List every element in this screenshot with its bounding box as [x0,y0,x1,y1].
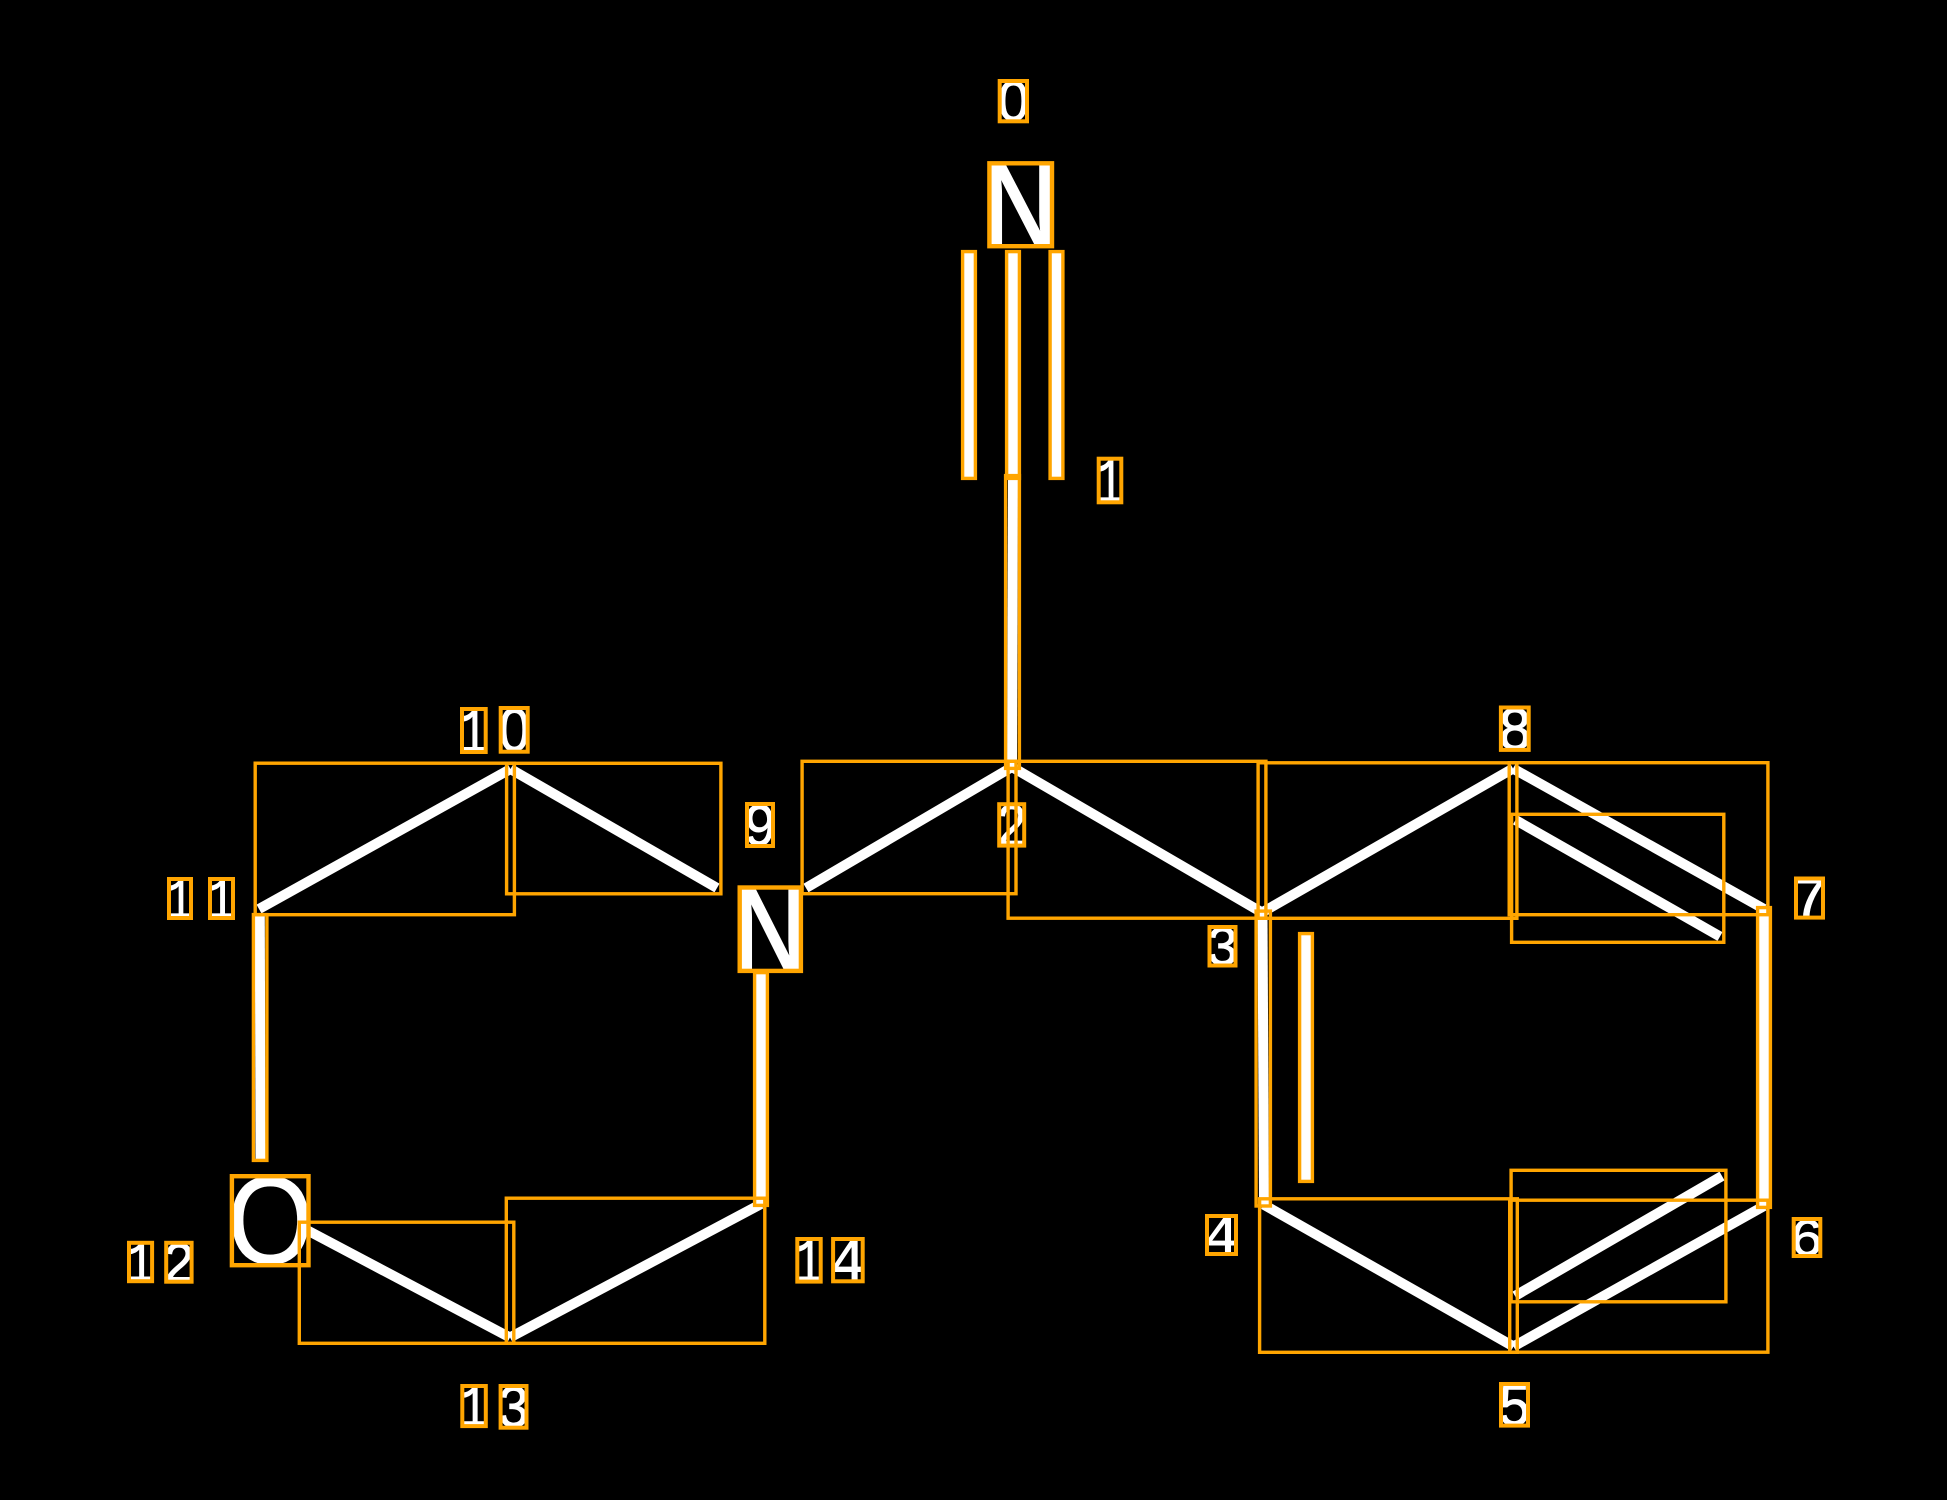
bond 8-7 inner (double) line [1516,820,1721,937]
annotation box of atom index label 11 second digit 1 [210,879,233,918]
annotation box of atom index label 14 digit 4 [833,1239,863,1281]
annotation box of atom index label 3 [1210,927,1236,966]
annotation bbox of bond 8-7 inner (double) line [1512,814,1724,942]
annotation box of atom index label 0 [1000,81,1027,121]
annotation box of atom 12: morpholine O [232,1176,309,1265]
annotation box of atom index label 4 [1207,1216,1236,1254]
annotation box of atom index label 13 digit 3 [501,1386,527,1428]
bond 3-8 [1262,769,1513,913]
annotation bbox of bond 8-7 outer line [1509,763,1768,915]
annotation bbox of bond 0-1 (N#C) triple, left line [963,252,976,479]
annotation box of atom index label 7 [1796,879,1823,918]
annotation box of atom index label 13 digit 1 [462,1386,486,1426]
bond 0-1 (N#C) triple, right line [1052,253,1062,477]
bond 0-1 (N#C) triple, left line [964,253,974,477]
annotation bbox of bond 2-3 [1008,761,1266,918]
annotation box of atom index label 12 digit 1 [129,1243,152,1281]
bond 1-2 single [1012,477,1013,767]
annotation bbox of bond 14-13 [506,1198,765,1343]
annotation box of atom 0: nitrile N [989,163,1052,246]
annotation box of atom 9: morpholine N [740,888,801,971]
bond 10-11 [259,769,511,909]
annotation bbox of bond 7-6 [1758,908,1771,1208]
annotation box of atom index label 1 [1099,459,1122,503]
annotation box of atom index label 2 [999,804,1024,845]
bond 13-12 (C-O) [303,1228,510,1338]
annotation box of atom index label 5 [1501,1384,1528,1426]
bond 6-5 [1514,1206,1765,1347]
annotation bbox of bond 1-2 single [1006,476,1020,769]
annotation bbox of bond 9-14 (N-C) [755,973,768,1206]
bond 5-4 [1264,1205,1514,1347]
annotation bbox of bond 12-11 (O-C) [253,915,267,1161]
annotation bbox of bond 0-1 (N#C) triple, middle line [1007,252,1020,479]
annotation bbox of bond 6-5 [1510,1200,1768,1352]
annotation bbox of bond 2-9 (C-N) [802,761,1016,893]
annotation box of atom index label 9 [747,804,773,846]
annotation box of atom index label 8 [1501,708,1529,750]
annotation bbox of bond 6-5 inner (double) line [1511,1170,1726,1302]
annotation bbox of bond 4-3 inner (double) line [1300,934,1313,1182]
annotation bbox of bond 10-9 (C-N) [507,763,721,894]
bond 12-11 (O-C) [255,916,266,1159]
annotation bbox of bond 3-8 [1258,763,1517,919]
annotation box of atom index label 12 digit 2 [166,1243,191,1282]
bond 4-3 [1263,913,1265,1205]
annotation box of atom index label 11 first digit 1 [169,879,191,918]
annotation bbox of bond 5-4 [1260,1199,1518,1353]
bond 14-13 [510,1204,761,1338]
annotation bbox of bond 13-12 (C-O) [299,1222,514,1343]
bond 2-9 (C-N) [806,767,1012,888]
bond 6-5 inner (double) line [1515,1176,1722,1296]
bond 7-6 [1759,909,1769,1206]
bond 2-3 [1012,767,1262,913]
annotation box of atom index label 6 [1794,1219,1821,1256]
annotation box of atom index label 14 digit 1 [797,1239,820,1282]
bond 10-9 (C-N) [511,769,718,888]
bond 8-7 outer line [1513,769,1764,910]
annotation bbox of bond 4-3 [1256,911,1270,1206]
annotation bbox of bond 10-11 [255,763,514,915]
bond 0-1 (N#C) triple, middle line [1008,253,1018,477]
annotation box of atom index label 10 digit 1 [462,709,486,752]
annotation box of atom index label 10 digit 0 [501,708,528,752]
annotation bbox of bond 0-1 (N#C) triple, right line [1050,252,1063,479]
bond 4-3 inner (double) line [1301,935,1311,1180]
bond 9-14 (N-C) [756,974,766,1204]
